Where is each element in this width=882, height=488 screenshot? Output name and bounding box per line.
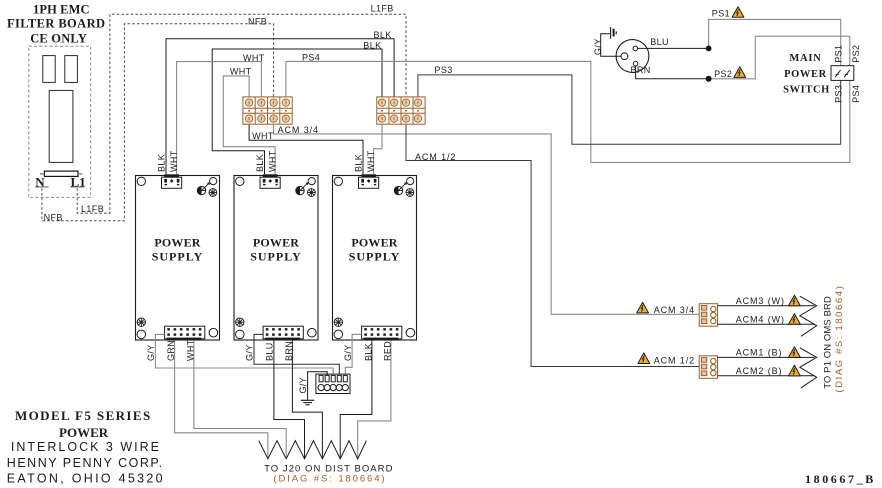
svg-text:ACM 1/2: ACM 1/2	[654, 356, 695, 366]
warning triangle ACM 3/4	[637, 302, 649, 313]
wire WHT to PS3	[374, 124, 382, 174]
wire ACM4	[718, 323, 816, 325]
warning triangle PS2	[734, 67, 746, 78]
wire BLK to PS3	[249, 124, 363, 174]
wire G/Y from U2	[254, 334, 339, 375]
label MAIN POWER SWITCH	[783, 53, 830, 96]
svg-text:L1: L1	[71, 174, 86, 189]
wire BLK from U3	[340, 340, 372, 457]
terminal block ACM 1/2	[377, 97, 425, 124]
svg-text:PS2: PS2	[851, 45, 861, 63]
earth ground symbol	[301, 400, 314, 405]
wire GRN from U1	[175, 340, 268, 457]
svg-text:BRN: BRN	[284, 341, 294, 361]
svg-text:PS4: PS4	[851, 85, 861, 103]
svg-text:POWER: POWER	[59, 425, 109, 440]
warning triangle ACM4	[789, 314, 801, 325]
svg-text:BLU: BLU	[650, 37, 669, 47]
svg-text:N: N	[35, 174, 45, 189]
wire G/Y to chassis ground	[601, 34, 621, 57]
svg-text:PS1: PS1	[712, 9, 730, 19]
wire BRN	[636, 66, 709, 79]
svg-text:L1FB: L1FB	[371, 4, 394, 14]
wire ACM1	[718, 356, 815, 358]
svg-text:SWITCH: SWITCH	[783, 85, 830, 96]
warning triangle PS1	[732, 7, 744, 18]
svg-text:PS3: PS3	[833, 85, 843, 103]
wire ACM2	[718, 375, 816, 377]
wire BLK to PS1	[166, 39, 394, 174]
svg-text:ACM 1/2: ACM 1/2	[415, 152, 456, 162]
power supply U3	[333, 150, 417, 361]
warning triangle ACM2	[789, 365, 801, 376]
wire BLU from U2	[274, 340, 305, 457]
svg-text:WHT: WHT	[252, 131, 274, 141]
svg-text:G/Y: G/Y	[298, 377, 308, 394]
wire G/Y from U1	[155, 334, 333, 375]
svg-text:1PH EMC: 1PH EMC	[33, 2, 90, 16]
terminal block ACM 3/4	[243, 97, 292, 124]
wire WHT to PS1	[177, 62, 262, 175]
wire PS4	[286, 61, 850, 162]
connector ACM 1/2	[699, 356, 717, 379]
junction dot BLU/PS1	[706, 46, 712, 52]
svg-text:ACM4 (W): ACM4 (W)	[736, 314, 785, 324]
zigzag to OMS board upper	[800, 296, 817, 336]
svg-text:INTERLOCK 3 WIRE: INTERLOCK 3 WIRE	[11, 440, 161, 454]
svg-text:HENNY PENNY CORP.: HENNY PENNY CORP.	[7, 456, 164, 470]
wire PS3	[418, 75, 841, 144]
wire ACM3	[718, 305, 815, 307]
wire WHT from U1	[194, 340, 286, 457]
svg-text:WHT: WHT	[243, 53, 265, 63]
wire L1FB dashed	[77, 14, 406, 213]
wire PS2	[709, 36, 850, 79]
power supply U1	[136, 150, 220, 361]
svg-text:NFB: NFB	[248, 17, 267, 27]
svg-text:BLK: BLK	[374, 30, 392, 40]
svg-text:FILTER BOARD: FILTER BOARD	[7, 16, 105, 30]
warning triangle ACM1	[789, 347, 801, 358]
harness zigzag to dist board	[259, 441, 367, 459]
junction dot BRN/PS2	[706, 76, 712, 82]
warning triangle ACM3	[789, 295, 801, 306]
filter terminal bar	[35, 171, 84, 187]
wire ACM 3/4 feed	[274, 124, 700, 314]
ground terminal block J2	[316, 374, 350, 393]
svg-text:BLK: BLK	[364, 343, 374, 361]
svg-text:(DIAG #S: 180664): (DIAG #S: 180664)	[834, 285, 845, 393]
svg-text:BLK: BLK	[363, 40, 381, 50]
svg-text:PS4: PS4	[302, 52, 320, 62]
svg-text:ACM3 (W): ACM3 (W)	[736, 296, 785, 306]
wire ACM 1/2 feed	[406, 124, 699, 366]
svg-text:RED: RED	[383, 341, 393, 361]
main power switch S1	[831, 66, 854, 81]
svg-text:POWER: POWER	[784, 69, 827, 80]
svg-text:ACM 3/4: ACM 3/4	[278, 125, 319, 135]
svg-text:MODEL F5 SERIES: MODEL F5 SERIES	[15, 408, 152, 423]
power inlet connector J1	[616, 40, 649, 73]
wire BLU	[638, 47, 709, 49]
svg-text:BRN: BRN	[631, 65, 651, 75]
svg-text:TO P1 ON OMS BRD: TO P1 ON OMS BRD	[822, 296, 833, 389]
svg-text:ACM2 (B): ACM2 (B)	[736, 366, 783, 376]
svg-text:G/Y: G/Y	[593, 38, 603, 55]
wire BRN from U2	[292, 340, 322, 457]
warning triangle ACM 1/2	[638, 353, 650, 364]
wire PS1	[709, 19, 841, 65]
chassis ground symbol	[611, 27, 617, 39]
svg-text:MAIN: MAIN	[789, 53, 821, 64]
filter capacitor C2	[65, 56, 78, 83]
EMC filter board outline	[29, 46, 91, 197]
connector ACM 3/4	[699, 304, 717, 327]
svg-text:PS3: PS3	[435, 65, 453, 75]
svg-text:NFB: NFB	[44, 212, 63, 222]
wire RED from U3	[358, 340, 391, 457]
svg-text:PS1: PS1	[833, 45, 843, 63]
svg-text:ACM1 (B): ACM1 (B)	[736, 348, 783, 358]
svg-text:EATON, OHIO 45320: EATON, OHIO 45320	[7, 471, 165, 485]
wire BLK to PS2	[212, 49, 382, 174]
wire G/Y from U3	[345, 334, 361, 375]
power supply U2	[234, 150, 318, 361]
svg-text:CE ONLY: CE ONLY	[30, 32, 87, 46]
svg-text:WHT: WHT	[230, 66, 252, 76]
svg-text:(DIAG #S: 180664): (DIAG #S: 180664)	[273, 474, 386, 485]
svg-text:L1FB: L1FB	[81, 204, 104, 214]
svg-text:ACM 3/4: ACM 3/4	[654, 305, 695, 315]
wire NFB dashed	[42, 24, 274, 221]
wire G/Y to earth ground	[308, 372, 328, 400]
wire WHT to PS2	[223, 76, 275, 174]
zigzag to OMS board lower	[800, 348, 817, 388]
svg-text:PS2: PS2	[714, 69, 732, 79]
svg-text:BLU: BLU	[265, 342, 275, 361]
filter capacitor C1	[43, 56, 55, 83]
svg-text:WHT: WHT	[186, 339, 196, 361]
filter choke L1	[49, 90, 73, 162]
svg-text:GRN: GRN	[166, 340, 176, 361]
1PH EMC filter board title	[7, 2, 105, 45]
svg-text:180667_B: 180667_B	[805, 472, 876, 486]
